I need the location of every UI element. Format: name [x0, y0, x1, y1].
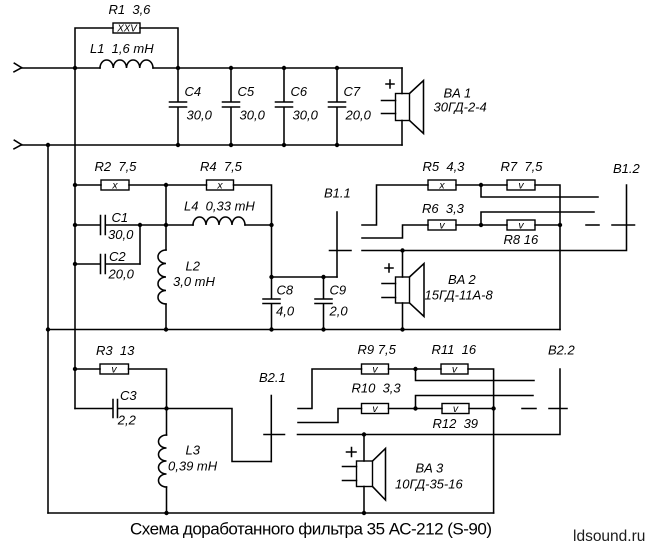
wire to speaker BA1: [401, 68, 403, 94]
resistor R11: [441, 364, 468, 374]
junction rail B / R3: [73, 367, 77, 371]
junction L4 right end: [269, 223, 273, 227]
capacitor C9: [315, 277, 332, 330]
capacitor C1: [75, 216, 166, 235]
resistor R12: [442, 404, 469, 414]
resistor R5: [428, 180, 456, 190]
wire C3 node to B2.1: [167, 409, 272, 462]
wire BA2 top: [402, 251, 404, 278]
wire R7 output: [535, 185, 560, 330]
junction rail 2 / BA2: [400, 327, 404, 331]
inductor L3: [166, 409, 168, 436]
capacitor C6: [276, 68, 293, 145]
wire R11 output: [468, 369, 494, 513]
junction R7-R8 output node: [558, 223, 562, 227]
wire R2-R4: [129, 184, 207, 186]
junction R11-R12 output node: [491, 406, 495, 410]
resistor R9: [362, 364, 389, 374]
junction return wire / rail A: [46, 143, 50, 147]
svg-text:L3: L3: [186, 443, 201, 458]
svg-text:C8: C8: [277, 283, 294, 298]
junction rail 2 / L2: [164, 327, 168, 331]
open dash near B2.2: [522, 408, 536, 410]
wire R12 output: [469, 408, 494, 410]
junction C8 top: [269, 275, 273, 279]
lead to R6: [362, 225, 428, 238]
svg-text:C4: C4: [185, 84, 202, 99]
terminal B2.2: [549, 408, 567, 410]
junction rail 2 / C9: [321, 327, 325, 331]
junction return wire / C5: [229, 143, 233, 147]
tap wire 1: [481, 185, 598, 197]
node vertical x=166: [165, 185, 167, 250]
wire R4 output: [234, 185, 272, 225]
wire L4 node down to C8: [271, 225, 273, 277]
svg-text:R9 7,5: R9 7,5: [358, 342, 397, 357]
vertical rail B x=75: [74, 68, 76, 409]
wire R2 row: [75, 184, 101, 186]
svg-text:B2.2: B2.2: [548, 343, 576, 358]
junction top wire / C6: [282, 66, 286, 70]
svg-text:B1.2: B1.2: [613, 161, 641, 176]
svg-text:4,0: 4,0: [276, 304, 295, 319]
svg-text:10ГД-35-16: 10ГД-35-16: [395, 477, 463, 492]
svg-text:x: x: [216, 180, 223, 192]
svg-text:C5: C5: [238, 84, 255, 99]
svg-text:BA 1: BA 1: [444, 86, 472, 101]
capacitor C4: [170, 68, 187, 145]
svg-text:R5 4,3: R5 4,3: [423, 159, 466, 174]
resistor R6: [428, 220, 456, 230]
junction top wire / R1 right leg / C4: [176, 66, 180, 70]
svg-text:30,0: 30,0: [240, 108, 266, 123]
svg-text:v: v: [111, 364, 117, 376]
junction R10-R12 node: [413, 406, 417, 410]
wire R9-R11: [389, 368, 442, 370]
resistor R10: [362, 404, 389, 414]
svg-text:R6 3,3: R6 3,3: [422, 201, 465, 216]
svg-text:BA 2: BA 2: [448, 272, 476, 287]
junction return wire / C4: [176, 143, 180, 147]
input arrow bottom: [14, 140, 22, 149]
resistor R8: [507, 220, 535, 230]
svg-text:C2: C2: [109, 249, 126, 264]
terminal B1.2: [612, 224, 635, 226]
svg-text:R11 16: R11 16: [432, 342, 477, 357]
svg-text:15ГД-11А-8: 15ГД-11А-8: [425, 288, 494, 303]
svg-text:R1 3,6: R1 3,6: [109, 2, 152, 17]
junction C1-L4-L2 node: [164, 223, 168, 227]
svg-text:C9: C9: [330, 283, 347, 298]
svg-text:ldsound.ru: ldsound.ru: [573, 528, 645, 545]
svg-text:R10 3,3: R10 3,3: [352, 381, 402, 396]
junction rail B / R2: [73, 183, 77, 187]
wire R8 output: [535, 224, 560, 226]
wire BA1 bottom: [401, 121, 403, 146]
svg-text:R4 7,5: R4 7,5: [200, 159, 243, 174]
svg-text:2,0: 2,0: [329, 304, 349, 319]
svg-text:BA 3: BA 3: [416, 461, 444, 476]
svg-text:Схема доработанного фильтра 35: Схема доработанного фильтра 35 АС-212 (S…: [130, 520, 492, 539]
svg-text:C1: C1: [112, 210, 129, 225]
resistor R2: [101, 180, 129, 190]
wire R5-R7: [456, 184, 507, 186]
wire R3 row: [75, 368, 100, 370]
junction C1-C2 node: [138, 223, 142, 227]
svg-text:0,39 mH: 0,39 mH: [168, 459, 218, 474]
junction top wire / C7: [335, 66, 339, 70]
svg-text:B2.1: B2.1: [259, 370, 286, 385]
input arrow top: [14, 63, 22, 72]
svg-text:v: v: [372, 364, 378, 376]
junction rail B / C2: [73, 262, 77, 266]
svg-text:R2 7,5: R2 7,5: [95, 159, 138, 174]
capacitor C7: [329, 68, 346, 145]
svg-text:30,0: 30,0: [293, 108, 319, 123]
junction top wire / C5: [229, 66, 233, 70]
inductor L1: [100, 60, 153, 68]
svg-text:20,0: 20,0: [108, 267, 135, 282]
speaker BA1: [382, 80, 487, 134]
svg-text:R8 16: R8 16: [504, 232, 539, 247]
wire R1 right leg: [140, 28, 178, 68]
wire R6-R8: [456, 224, 507, 226]
capacitor C3: [75, 400, 167, 418]
resistor R7: [507, 180, 535, 190]
svg-text:x: x: [111, 180, 118, 192]
svg-text:XXV: XXV: [116, 24, 138, 35]
rail 2 y=329.5: [48, 329, 560, 331]
svg-text:L2: L2: [186, 259, 201, 274]
junction rail 3 / L3: [164, 511, 168, 515]
inductor L2: [158, 250, 166, 304]
junction BA2 plus wire: [400, 248, 404, 252]
junction top wire / R1 left leg: [73, 66, 77, 70]
svg-text:2,2: 2,2: [117, 413, 137, 428]
junction BA3 plus wire: [362, 432, 366, 436]
svg-text:v: v: [453, 403, 459, 415]
svg-text:C3: C3: [120, 388, 137, 403]
wire y=250.5 to B1.2: [362, 185, 627, 251]
svg-text:R7 7,5: R7 7,5: [501, 159, 544, 174]
svg-text:B1.1: B1.1: [324, 186, 351, 201]
tap wire 2: [481, 212, 594, 225]
wire C1-C2 join: [139, 225, 141, 264]
svg-text:C6: C6: [291, 84, 308, 99]
wire BA2 bottom: [402, 303, 404, 330]
resistor R1: [113, 23, 140, 33]
wire top input y=68: [22, 67, 402, 69]
svg-text:30,0: 30,0: [108, 227, 134, 242]
svg-text:R3 13: R3 13: [96, 343, 135, 358]
tap wire 3: [416, 369, 535, 381]
inductor L4: [166, 224, 272, 226]
junction R9-R11 node: [413, 367, 417, 371]
junction rail 2 / C8: [269, 327, 273, 331]
wire bottom input y=145: [22, 144, 402, 146]
svg-text:30,0: 30,0: [187, 108, 213, 123]
wire BA3 bottom: [363, 487, 365, 514]
open dash near B1.2: [586, 224, 599, 226]
svg-text:C7: C7: [344, 84, 361, 99]
wire BA3 top: [363, 435, 365, 462]
svg-text:v: v: [439, 220, 445, 232]
wire R10-R12: [389, 408, 443, 410]
capacitor C5: [223, 68, 240, 145]
wire R1 left leg: [75, 28, 113, 68]
lead to R9: [298, 369, 362, 409]
svg-text:v: v: [518, 220, 524, 232]
speaker BA2: [382, 264, 493, 317]
junction rail 3 / BA3: [362, 511, 366, 515]
svg-text:30ГД-2-4: 30ГД-2-4: [434, 100, 487, 115]
vertical rail A x=48: [47, 145, 49, 513]
terminal B1.1: [336, 212, 338, 277]
rail 3 y=513: [48, 512, 494, 514]
svg-text:L4 0,33 mH: L4 0,33 mH: [184, 199, 255, 214]
junction R3-C3-L3 node: [164, 406, 168, 410]
junction C9 top: [321, 275, 325, 279]
resistor R4: [207, 180, 234, 190]
lead to R5: [362, 185, 428, 225]
junction R5-R7 node: [479, 183, 483, 187]
tap wire 4: [416, 396, 534, 409]
capacitor C2: [75, 255, 140, 274]
svg-text:v: v: [372, 403, 378, 415]
terminal B2.1: [270, 396, 272, 462]
resistor R3: [100, 364, 129, 374]
wire R3 output: [129, 369, 167, 409]
svg-text:v: v: [518, 180, 524, 192]
junction return wire / C6: [282, 143, 286, 147]
junction R6-R8 node: [479, 223, 483, 227]
capacitor C8: [263, 277, 280, 330]
speaker BA3: [343, 448, 464, 501]
lead to R10: [298, 409, 362, 423]
junction rail B / C1: [73, 223, 77, 227]
wire y=277: [272, 276, 338, 278]
junction R2-R4 node: [164, 183, 168, 187]
svg-text:20,0: 20,0: [345, 108, 372, 123]
svg-text:3,0 mH: 3,0 mH: [173, 274, 216, 289]
svg-text:R12 39: R12 39: [433, 416, 479, 431]
svg-text:x: x: [438, 180, 445, 192]
wire y=434.5 to B2.2: [298, 369, 561, 435]
svg-text:L1 1,6 mH: L1 1,6 mH: [90, 41, 154, 56]
junction rail 2 / rail A: [46, 327, 50, 331]
junction return wire / C7: [335, 143, 339, 147]
svg-text:v: v: [452, 364, 458, 376]
